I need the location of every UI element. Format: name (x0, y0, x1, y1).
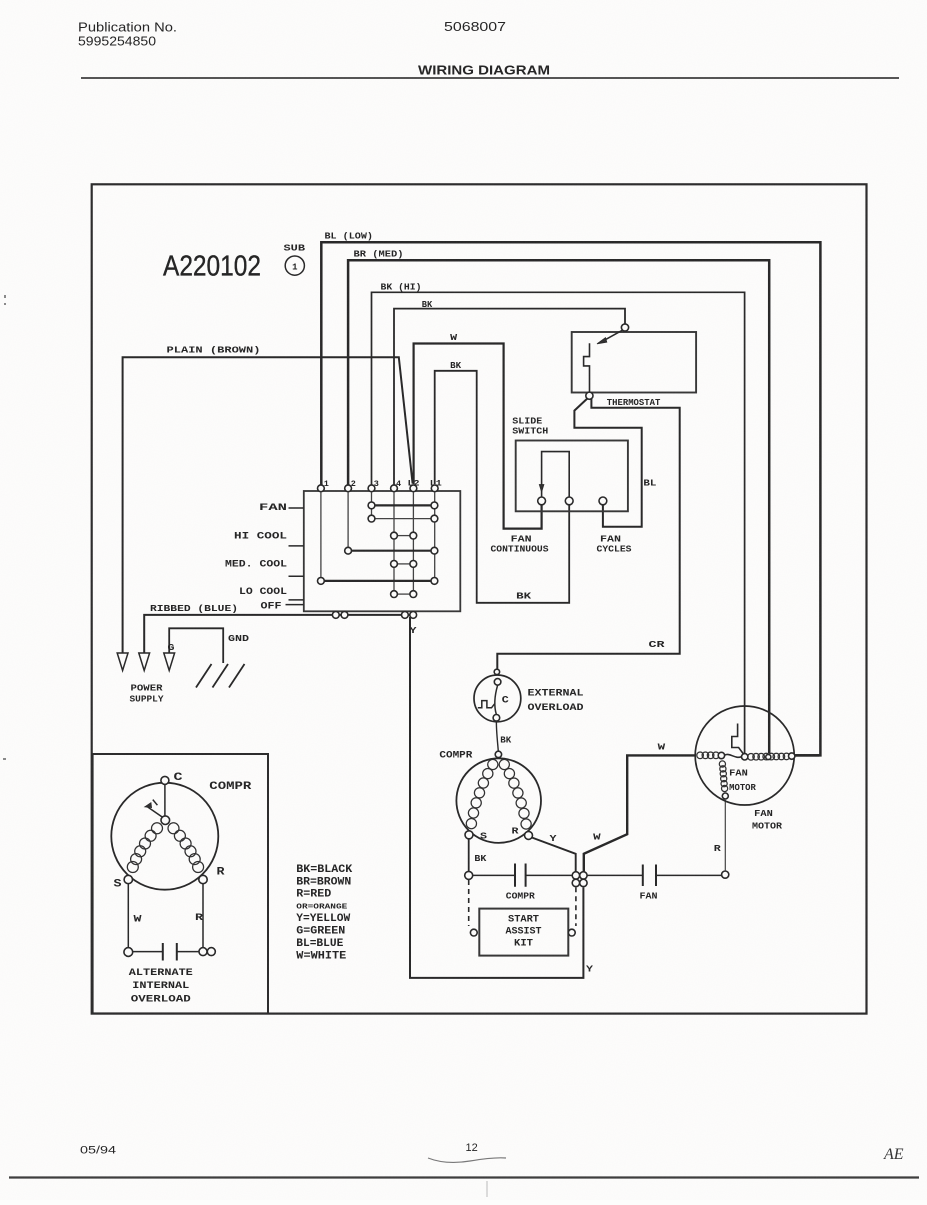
wire BK from switch terminal L1 to slide switch common (435, 371, 570, 603)
compressor run winding coil (499, 759, 531, 829)
wire Y compressor R to capacitor node (532, 838, 576, 872)
alternate internal overload contact (124, 948, 133, 957)
alternate compressor terminal S (124, 875, 132, 883)
selector switch contact row HI COOL (4-L2) (397, 535, 410, 537)
external overload contact blade (495, 685, 498, 714)
external overload bimetal element (478, 701, 495, 708)
node junction S / start kit (465, 871, 473, 879)
capacitor COMPR (515, 864, 526, 887)
selector switch contact row MED COOL (2-L1) (352, 550, 432, 552)
node junction cluster Y/W/capacitors (572, 872, 579, 879)
alternate compressor run winding coil (168, 823, 204, 873)
wire G ground lead (169, 628, 223, 663)
fan motor terminal taps (718, 752, 724, 758)
thermostat contact blade and bimetal (602, 330, 623, 342)
selector switch contact row 2 (3-L1) (375, 518, 431, 520)
selector switch pin 2 (345, 485, 352, 492)
thermostat body (572, 332, 696, 393)
slide switch terminal FAN CYCLES (599, 497, 607, 505)
slide switch selector link (542, 452, 570, 497)
selector switch pin 1 (318, 485, 325, 492)
wire BL thermostat to slide switch FAN CYCLES (574, 399, 641, 527)
selector switch internal column wires (321, 492, 435, 594)
external overload terminal bottom (493, 715, 500, 722)
selector switch pin 3 (368, 485, 375, 492)
wire W alternate S lead (127, 884, 129, 948)
wire BR (MED) from switch terminal 2 to fan motor (348, 260, 769, 753)
wire Y capacitor node to switch neutral (410, 617, 583, 978)
alternate compressor start winding coil (127, 823, 162, 873)
selector switch pin L1 (431, 485, 438, 492)
wire fan motor right tap to BL (795, 754, 819, 757)
capacitor COMPR leads (473, 874, 572, 876)
fan motor start winding down coil (719, 761, 727, 792)
title rule (81, 77, 899, 79)
external overload protector body (474, 675, 521, 722)
slide switch body (516, 441, 628, 512)
wire W from switch terminal L2 to slide switch FAN CONTINUOUS (414, 344, 542, 529)
selector switch pin 4 (391, 485, 398, 492)
selector switch contact row (4-L2) (397, 593, 410, 595)
selector switch bottom terminals on neutral line (332, 612, 339, 619)
footer rule (9, 1176, 919, 1178)
wire BK (HI) from switch terminal 3 to fan motor switch (372, 292, 745, 753)
wire node junction CR to external overload top (494, 669, 499, 674)
thermostat terminal top (621, 324, 628, 331)
wire BK compressor S to run capacitor node (468, 839, 470, 872)
selector switch contact row FAN (3-L1) (375, 504, 431, 506)
wire BK from switch terminal 4 to thermostat (394, 309, 625, 486)
slide switch terminal common (565, 497, 573, 505)
selector switch contact row (4-L2) (397, 563, 410, 565)
selector switch position tick marks (286, 508, 304, 605)
wire R alternate R lead (202, 884, 204, 948)
compressor motor body (456, 758, 541, 843)
compressor terminal C (495, 751, 501, 757)
power supply arrow terminals (117, 653, 128, 671)
alternate compressor terminal C (161, 776, 169, 784)
slide switch terminal FAN CONTINUOUS (538, 497, 546, 505)
capacitor FAN (643, 865, 656, 887)
compressor terminal S (465, 831, 473, 839)
fan motor body (695, 706, 794, 805)
compressor terminal R (525, 831, 533, 839)
alternate compressor body (111, 783, 218, 890)
wire CR thermostat to external overload (497, 399, 679, 669)
alternate compressor detail box (93, 754, 268, 1013)
wire W fan motor common to capacitor node (584, 755, 696, 871)
thermostat terminal bottom (586, 392, 593, 399)
wire R fan motor winding to capacitor (724, 800, 726, 871)
fan motor switch actuator (732, 724, 743, 754)
fan motor speed winding coils (748, 753, 790, 760)
fan motor main winding left coil (697, 752, 719, 759)
node junction R fan motor (722, 871, 729, 878)
wire RIBBED (BLUE) neutral line to switch OFF terminals (144, 615, 413, 653)
selector switch pin L2 (410, 485, 417, 492)
fan motor centrifugal switch blade (725, 754, 742, 757)
capacitor FAN leads (587, 874, 721, 876)
selector switch contact row LO COOL (1-L1) (324, 580, 431, 582)
alternate compressor internal overload switch (161, 816, 170, 825)
compressor start winding coil (466, 759, 498, 828)
wire BK external overload to compressor C (496, 721, 498, 751)
start kit optional lead right (dashed) (575, 887, 577, 926)
wire BL (LOW) from switch terminal 1 to fan motor high-speed tap (321, 242, 820, 755)
start kit optional lead left (dashed) (468, 880, 470, 926)
alternate compressor terminal R (199, 875, 207, 883)
start assist kit box (479, 909, 568, 956)
wire PLAIN (BROWN) line-in to terminal L2 (123, 357, 413, 653)
selector switch body (304, 491, 461, 611)
